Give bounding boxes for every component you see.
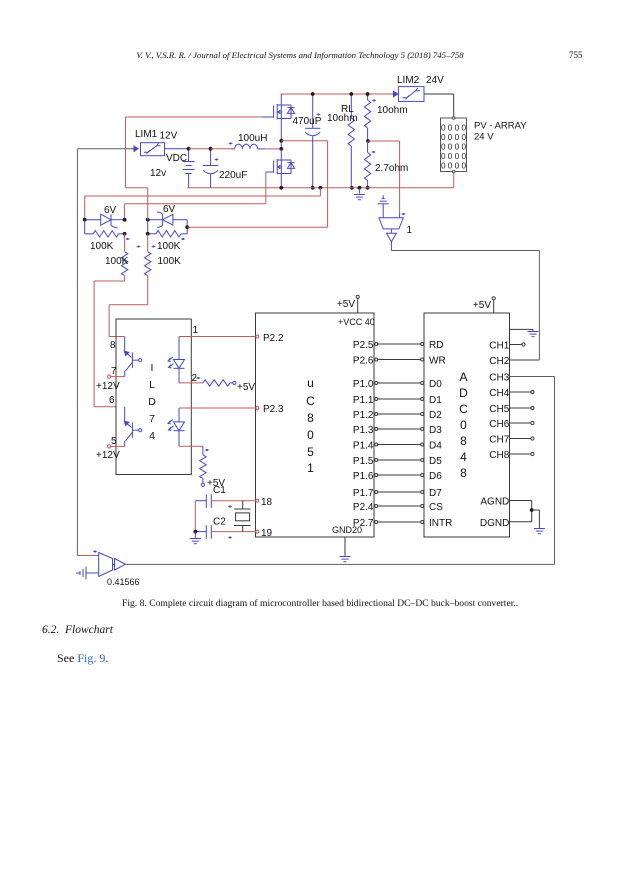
wire LED2 anode to P2.3 xyxy=(179,407,256,409)
capacitor C2 xyxy=(195,525,256,539)
svg-text:100K: 100K xyxy=(105,256,129,267)
label zener D2 6V xyxy=(163,204,176,215)
wire AGND xyxy=(510,501,532,522)
pin P1.2 label xyxy=(353,410,374,421)
node 470uP bottom xyxy=(311,186,315,190)
label 100K vert1 text xyxy=(105,256,129,267)
svg-text:DGND: DGND xyxy=(480,518,509,529)
wire P1.1 to D1 xyxy=(375,398,424,401)
pin P1.3 label xyxy=(353,425,374,436)
resistor RL 10ohm xyxy=(348,94,354,188)
wire P2.7 to INTR xyxy=(375,521,424,524)
svg-text:6.2. Flowchart: 6.2. Flowchart xyxy=(42,624,114,636)
pin D2 label xyxy=(429,410,442,421)
pin 5 +12V supply xyxy=(108,445,125,448)
svg-text:0 0 0 0: 0 0 0 0 xyxy=(441,124,466,133)
pin CH6 label xyxy=(489,419,509,430)
svg-text:8: 8 xyxy=(460,466,467,480)
node bus gnd tap xyxy=(358,186,362,190)
wire P1.2 to D2 xyxy=(375,413,424,416)
wire CH6 stub xyxy=(510,421,535,424)
label 100K v1 xyxy=(0,0,1,1)
svg-text:220uF: 220uF xyxy=(219,170,247,181)
svg-text:CH5: CH5 xyxy=(489,404,509,415)
svg-text:C: C xyxy=(459,402,468,416)
svg-text:12V: 12V xyxy=(160,131,178,142)
svg-text:L: L xyxy=(149,379,155,391)
wire VDC input sense line (left vertical) xyxy=(77,149,136,556)
wire P1.4 to D4 xyxy=(375,443,424,446)
inductor 100uH xyxy=(229,142,266,149)
svg-text:0 0 0 0: 0 0 0 0 xyxy=(441,143,466,152)
node Q2 source on bus xyxy=(279,186,283,190)
resistor 100K (parallel zener2) xyxy=(148,220,188,240)
wire 100K2 to opto pin8 xyxy=(109,305,148,337)
wire CH2 to buffer xyxy=(510,359,540,361)
wire C1 left rail xyxy=(194,501,196,532)
svg-text:P1.4: P1.4 xyxy=(353,441,374,452)
pin AGND label xyxy=(480,497,509,508)
label ADC0848 xyxy=(459,370,468,480)
label 0.41566 xyxy=(107,577,140,587)
pin D0 label xyxy=(429,379,442,390)
svg-text:P2.2: P2.2 xyxy=(263,333,284,344)
wire comparator output to CH3 xyxy=(126,563,555,565)
transistor opto T1 xyxy=(124,337,141,377)
node zener2 left xyxy=(146,218,150,222)
wire inductor to SW node xyxy=(265,148,281,150)
svg-text:+VCC 40: +VCC 40 xyxy=(338,317,375,327)
wire comparator input xyxy=(77,550,98,555)
wire Q1 gate lead xyxy=(126,116,274,118)
svg-text:0.41566: 0.41566 xyxy=(107,577,140,587)
svg-text:P1.1: P1.1 xyxy=(353,395,374,406)
wire DGND xyxy=(510,521,532,523)
svg-text:24 V: 24 V xyxy=(474,132,494,143)
svg-text:100uH: 100uH xyxy=(238,133,267,144)
svg-text:Fig. 8. Complete circuit diag: Fig. 8. Complete circuit diagram of micr… xyxy=(122,598,518,609)
svg-text:D3: D3 xyxy=(429,425,442,436)
wire LED1 cathode to pullup xyxy=(179,382,203,384)
svg-text:+5V: +5V xyxy=(337,299,355,310)
crystal X1 xyxy=(234,501,250,532)
wire SW to gate-clamp net xyxy=(281,141,327,227)
op-amp buffer 1 xyxy=(379,213,406,242)
svg-text:P2.5: P2.5 xyxy=(353,340,374,351)
node 470uP top xyxy=(311,92,315,96)
svg-text:+12V: +12V xyxy=(96,381,120,392)
svg-text:P1.5: P1.5 xyxy=(353,456,374,467)
svg-text:LIM2: LIM2 xyxy=(397,75,420,86)
svg-text:6V: 6V xyxy=(163,204,176,215)
svg-text:5: 5 xyxy=(111,436,117,447)
svg-text:D: D xyxy=(148,396,156,408)
pin P1.6 label xyxy=(353,471,374,482)
pin D5 label xyxy=(429,456,442,467)
diode zener D1 6V xyxy=(85,214,125,227)
wire zener2 tap to SW clamp xyxy=(187,226,327,228)
svg-text:4: 4 xyxy=(460,450,467,464)
label 24 V xyxy=(474,132,494,143)
label C1 xyxy=(213,485,226,496)
pin CH5 label xyxy=(489,404,509,415)
resistor pullup P2.3 +5V xyxy=(200,446,206,486)
node 2.7ohm bottom xyxy=(366,186,370,190)
svg-text:CS: CS xyxy=(429,502,443,513)
pin 7 label xyxy=(111,366,117,377)
figure caption xyxy=(122,598,518,609)
svg-text:D7: D7 xyxy=(429,488,442,499)
svg-text:5: 5 xyxy=(307,445,314,459)
wire CH5 stub xyxy=(510,406,535,409)
wire divider tap xyxy=(368,141,400,214)
ground comparator input xyxy=(76,567,99,580)
pin 1 label xyxy=(193,325,199,336)
wire Q1 gate net left vertical xyxy=(126,117,148,188)
section heading 6.2 xyxy=(42,624,114,636)
pin P2.5 label xyxy=(353,340,374,351)
svg-text:7: 7 xyxy=(149,413,155,425)
svg-text:CH7: CH7 xyxy=(489,435,509,446)
svg-text:P1.6: P1.6 xyxy=(353,471,374,482)
ground power bus xyxy=(354,188,365,200)
svg-text:D6: D6 xyxy=(429,471,442,482)
pin 5 label xyxy=(111,436,117,447)
label 100K r2 xyxy=(157,241,181,252)
svg-text:CH6: CH6 xyxy=(489,419,509,430)
pin P1.7 label xyxy=(353,488,374,499)
pin P1.5 label xyxy=(353,456,374,467)
svg-text:8: 8 xyxy=(110,340,116,351)
svg-text:D4: D4 xyxy=(429,441,442,452)
svg-text:CH8: CH8 xyxy=(489,450,509,461)
svg-text:0: 0 xyxy=(460,418,467,432)
wire LIM2 to PV array xyxy=(424,94,454,118)
wire MOSFET Q1 drain xyxy=(280,94,282,105)
wire buffer output to CH2 xyxy=(391,242,539,360)
label RL value xyxy=(327,113,358,124)
node divider junction xyxy=(366,139,370,143)
label VDC xyxy=(166,153,187,164)
node SW lower xyxy=(279,147,283,151)
wire LIM1 to battery node xyxy=(165,148,189,150)
wire CH1 stub xyxy=(510,343,526,346)
wire PV array to ground bus xyxy=(453,173,455,188)
svg-text:7: 7 xyxy=(111,366,117,377)
pin P2.6 label xyxy=(353,356,374,367)
svg-text:D5: D5 xyxy=(429,456,442,467)
pin P2.4 label xyxy=(353,502,374,513)
svg-text:+5V: +5V xyxy=(473,300,491,311)
label LIM1 12V xyxy=(135,129,178,142)
svg-text:+5V: +5V xyxy=(237,382,255,393)
svg-text:I: I xyxy=(151,362,154,374)
node AGND-DGND xyxy=(530,508,534,512)
pin DGND label xyxy=(480,518,509,529)
label +5V (pin2 pullup) xyxy=(237,382,255,393)
wire P1.6 to D6 xyxy=(375,474,424,477)
svg-text:0 0 0 0: 0 0 0 0 xyxy=(441,133,466,142)
node C2 rail xyxy=(193,530,197,534)
limiter LIM1 box xyxy=(141,143,165,156)
pin WR label xyxy=(429,356,446,367)
pin D1 label xyxy=(429,395,442,406)
limiter LIM2 box xyxy=(398,87,424,102)
label 100uH xyxy=(238,133,267,144)
wire Q2 gate lead xyxy=(124,172,273,220)
svg-text:D0: D0 xyxy=(429,379,442,390)
svg-text:P1.7: P1.7 xyxy=(353,488,374,499)
label zener D1 6V xyxy=(104,205,117,216)
wire zener2 right corner xyxy=(186,220,188,234)
resistor 100K vertical 2 xyxy=(145,234,156,305)
svg-text:CH2: CH2 xyxy=(489,356,509,367)
svg-text:2.7ohm: 2.7ohm xyxy=(375,163,408,174)
svg-text:6: 6 xyxy=(109,395,115,406)
svg-text:D1: D1 xyxy=(429,395,442,406)
wire Q2 drain xyxy=(280,149,282,160)
wire P1.5 to D5 xyxy=(375,459,424,462)
svg-text:PV - ARRAY: PV - ARRAY xyxy=(474,121,527,132)
node RL bottom xyxy=(350,186,354,190)
svg-text:10ohm: 10ohm xyxy=(377,105,408,116)
svg-text:8: 8 xyxy=(460,434,467,448)
wire P1.3 to D3 xyxy=(375,428,424,431)
svg-text:P1.2: P1.2 xyxy=(353,410,374,421)
svg-text:CH4: CH4 xyxy=(489,388,509,399)
svg-text:2: 2 xyxy=(192,373,198,384)
wire LED2 cathode to pullup xyxy=(179,446,209,451)
svg-text:+12V: +12V xyxy=(96,450,120,461)
pin P1.4 label xyxy=(353,441,374,452)
svg-text:100K: 100K xyxy=(157,241,181,252)
svg-text:C: C xyxy=(306,394,315,408)
wire CH7 stub xyxy=(510,437,535,440)
node zener2 tap xyxy=(185,225,189,229)
svg-text:C2: C2 xyxy=(213,517,226,528)
pin D4 label xyxy=(429,441,442,452)
wire cap node to inductor xyxy=(211,148,231,150)
svg-text:1: 1 xyxy=(193,325,199,336)
transistor opto T2 xyxy=(124,407,141,447)
pin 8 label xyxy=(110,340,116,351)
diode zener D2 6V xyxy=(148,212,188,227)
svg-text:CH1: CH1 xyxy=(489,341,509,352)
node zener1 left xyxy=(83,218,87,222)
power +5V uC xyxy=(337,295,359,313)
transistor Q1 (top MOSFET with body diode) xyxy=(274,104,295,119)
label 2.7ohm xyxy=(375,163,408,174)
ic ADC0848 box xyxy=(424,313,510,537)
label C2 xyxy=(213,517,226,528)
pin 18 xyxy=(256,497,273,508)
wire P2.5 to RD xyxy=(375,343,424,346)
label VCC 40 xyxy=(338,317,375,327)
pin CH1 label xyxy=(489,341,509,352)
svg-text:LIM1: LIM1 xyxy=(135,129,158,140)
capacitor C1 xyxy=(195,494,256,508)
ground crystal rail xyxy=(190,532,201,544)
svg-text:100K: 100K xyxy=(158,256,182,267)
wire CH8 stub xyxy=(510,452,535,455)
node SW upper xyxy=(279,139,283,143)
svg-text:See Fig. 9.: See Fig. 9. xyxy=(57,651,108,665)
wire pin1 to P2.2 xyxy=(179,336,256,338)
svg-text:P1.0: P1.0 xyxy=(353,379,374,390)
pin 19 xyxy=(256,528,273,539)
node RL top xyxy=(349,92,353,96)
ground pin 20 xyxy=(340,537,351,562)
svg-text:4: 4 xyxy=(149,430,155,442)
label +12V lower xyxy=(96,450,120,461)
svg-text:CH3: CH3 xyxy=(489,373,509,384)
pin P2.7 label xyxy=(353,518,374,529)
svg-text:0 0 0 0: 0 0 0 0 xyxy=(441,152,466,161)
journal header text xyxy=(136,50,464,60)
label 100K r1 xyxy=(90,241,114,252)
wire CH3 to comparator xyxy=(510,377,555,565)
pin 6 label xyxy=(109,395,115,406)
label 470uP xyxy=(293,116,322,127)
svg-text:RD: RD xyxy=(429,340,443,351)
label 220uF xyxy=(219,170,247,181)
svg-text:A: A xyxy=(459,370,467,384)
svg-text:INTR: INTR xyxy=(429,518,452,529)
pin CH2 label xyxy=(489,356,509,367)
label GND20 xyxy=(332,525,362,535)
pin D3 label xyxy=(429,425,442,436)
page number 755 xyxy=(569,50,583,60)
solar panel PV-ARRAY box xyxy=(441,117,467,173)
pin P1.1 label xyxy=(353,395,374,406)
wire line1 (bus to zener1 anode) xyxy=(85,188,321,220)
label 10ohm xyxy=(377,105,408,116)
pin RD label xyxy=(429,340,443,351)
node battery top xyxy=(187,147,191,151)
pin CH7 label xyxy=(489,435,509,446)
svg-text:470uP: 470uP xyxy=(293,116,322,127)
node zener1 right xyxy=(123,218,127,222)
label 100K r3 xyxy=(0,0,1,1)
svg-text:u: u xyxy=(307,376,314,390)
label 100K vertical1 xyxy=(0,0,1,1)
svg-text:AGND: AGND xyxy=(480,497,509,508)
node zener2 lower left xyxy=(146,232,150,236)
svg-text:V. V., V.S.R. R. / Journal of: V. V., V.S.R. R. / Journal of Electrical… xyxy=(136,50,464,60)
label ILD74 xyxy=(148,362,156,442)
wire CH4 stub xyxy=(510,390,535,393)
pin 2 label xyxy=(192,373,201,384)
power +5V ADC xyxy=(473,297,495,313)
wire zener2 left up xyxy=(147,188,149,220)
resistor 2.7ohm xyxy=(364,141,375,188)
svg-text:0: 0 xyxy=(307,428,314,442)
svg-text:1: 1 xyxy=(307,461,314,475)
svg-text:VDC: VDC xyxy=(166,153,187,164)
svg-text:D: D xyxy=(459,386,468,400)
svg-text:C1: C1 xyxy=(213,485,226,496)
svg-text:19: 19 xyxy=(261,528,273,539)
wire P2.6 to WR xyxy=(375,358,424,361)
svg-text:WR: WR xyxy=(429,356,446,367)
see fig 9 text xyxy=(57,651,108,665)
limiter LIM1 input arrow xyxy=(131,146,138,151)
wire battery node to cap node xyxy=(189,148,211,150)
label +5V (LED2 pullup) xyxy=(207,478,225,489)
label LIM2 24V xyxy=(397,75,444,86)
svg-text:6V: 6V xyxy=(104,205,117,216)
transistor Q2 (bottom MOSFET with body diode) xyxy=(274,159,295,174)
pin P2.3 xyxy=(256,404,284,415)
svg-text:P2.4: P2.4 xyxy=(353,502,374,513)
capacitor 220uF xyxy=(203,149,218,188)
resistor pullup P2.2 +5V xyxy=(203,380,236,386)
capacitor 470uP xyxy=(305,94,320,188)
svg-text:P2.7: P2.7 xyxy=(353,518,374,529)
ic uC8051 box xyxy=(256,313,375,537)
svg-text:P2.3: P2.3 xyxy=(263,404,284,415)
svg-text:0 0 0 0: 0 0 0 0 xyxy=(441,162,466,171)
pin D6 label xyxy=(429,471,442,482)
ground AGND/DGND xyxy=(532,510,545,534)
pin CH3 label xyxy=(489,373,509,384)
label RL xyxy=(341,104,354,115)
diode LED1 (opto) xyxy=(168,337,185,383)
wire P1.0 to D0 xyxy=(375,382,424,385)
ground buffer input xyxy=(378,195,389,218)
pin D7 label xyxy=(429,488,442,499)
resistor 100K vertical 1 xyxy=(121,234,140,281)
battery VDC 12v xyxy=(183,149,195,188)
label uC8051 xyxy=(306,376,315,475)
svg-text:P2.6: P2.6 xyxy=(353,356,374,367)
pin INTR label xyxy=(429,518,452,529)
wire ground bus xyxy=(187,187,453,189)
label 100K vertical2 value xyxy=(0,0,1,1)
limiter LIM2 input arrow xyxy=(392,91,398,96)
ground ADC top right xyxy=(510,329,539,336)
wire Q2 source to ground bus xyxy=(280,174,282,188)
pin 7 +12V supply xyxy=(108,375,125,378)
label PV - ARRAY xyxy=(474,121,527,132)
diode LED2 (opto) xyxy=(168,408,185,446)
label 12v xyxy=(150,168,166,179)
op-amp comparator 0.41566 xyxy=(99,553,126,577)
svg-text:100K: 100K xyxy=(90,241,114,252)
optocoupler ILD74 box xyxy=(116,319,191,475)
svg-text:1: 1 xyxy=(407,225,413,236)
pin CH4 label xyxy=(489,388,509,399)
svg-text:18: 18 xyxy=(261,497,273,508)
resistor 100K (parallel zener1) xyxy=(85,220,130,240)
wire P2.4 to CS xyxy=(375,505,424,508)
svg-text:D2: D2 xyxy=(429,410,442,421)
svg-text:10ohm: 10ohm xyxy=(327,113,358,124)
pin P1.0 label xyxy=(353,379,374,390)
label buffer gain 1 xyxy=(407,225,413,236)
svg-text:8: 8 xyxy=(307,411,314,425)
svg-text:12v: 12v xyxy=(150,168,166,179)
pin CS label xyxy=(429,502,443,513)
resistor 10ohm xyxy=(364,94,376,141)
pin P2.2 xyxy=(256,333,284,344)
node cap top xyxy=(209,147,213,151)
wire Q1 source to SW node xyxy=(280,119,282,149)
svg-text:P1.3: P1.3 xyxy=(353,425,374,436)
node zener1 lower right xyxy=(123,232,127,236)
label 100K vert2 text xyxy=(158,256,182,267)
node bus-line1 tap xyxy=(319,186,323,190)
